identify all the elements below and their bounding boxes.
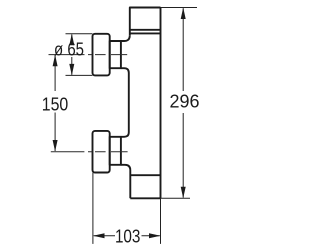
body right edge — [160, 8, 162, 199]
body left edge upper fillet — [121, 35, 130, 41]
upper neck — [110, 41, 121, 68]
150 down arrow — [53, 140, 58, 152]
103 right extension — [160, 198, 162, 244]
svg-text:103: 103 — [115, 225, 141, 246]
296 bottom extension — [161, 197, 191, 199]
dia65 dim line upper seg — [71, 35, 73, 43]
dia65 down arrow — [69, 64, 74, 76]
dia65 bottom extension — [66, 74, 93, 76]
dia65 up arrow — [69, 34, 74, 46]
svg-text:150: 150 — [42, 93, 69, 114]
svg-text:ø 65: ø 65 — [54, 39, 84, 60]
296 dim line upper seg — [182, 8, 184, 91]
296 down arrow — [181, 187, 186, 199]
arrowheads — [53, 8, 186, 239]
lower neck — [110, 137, 121, 165]
dia65 dim line lower seg — [71, 57, 73, 75]
103 left arrow — [93, 233, 105, 238]
upper center line — [49, 54, 128, 56]
dia65 top extension — [66, 33, 93, 35]
296 dim line lower seg — [182, 113, 184, 198]
lower center line — [51, 151, 128, 153]
cap top and left edge — [130, 8, 161, 36]
103 dim line right seg — [142, 235, 160, 237]
valve body outline — [93, 8, 161, 199]
150 up arrow — [53, 55, 58, 67]
center lines — [49, 55, 128, 152]
296 top extension — [161, 7, 198, 9]
body left edge between knobs — [121, 68, 129, 137]
cap bottom line — [130, 29, 161, 31]
svg-text:296: 296 — [170, 90, 200, 111]
lower knob — [93, 131, 110, 173]
103 right arrow — [149, 233, 161, 238]
150 dim line lower seg — [54, 113, 56, 152]
bottom edge — [130, 197, 160, 199]
103 left extension — [92, 173, 94, 244]
150 dim line upper seg — [54, 55, 56, 91]
upper knob — [93, 34, 110, 76]
flange line — [130, 32, 161, 34]
103 dim line left seg — [94, 235, 115, 237]
dimension lines — [55, 8, 197, 244]
ring line — [130, 174, 160, 176]
296 up arrow — [181, 8, 186, 20]
body left edge to skirt — [121, 165, 130, 199]
